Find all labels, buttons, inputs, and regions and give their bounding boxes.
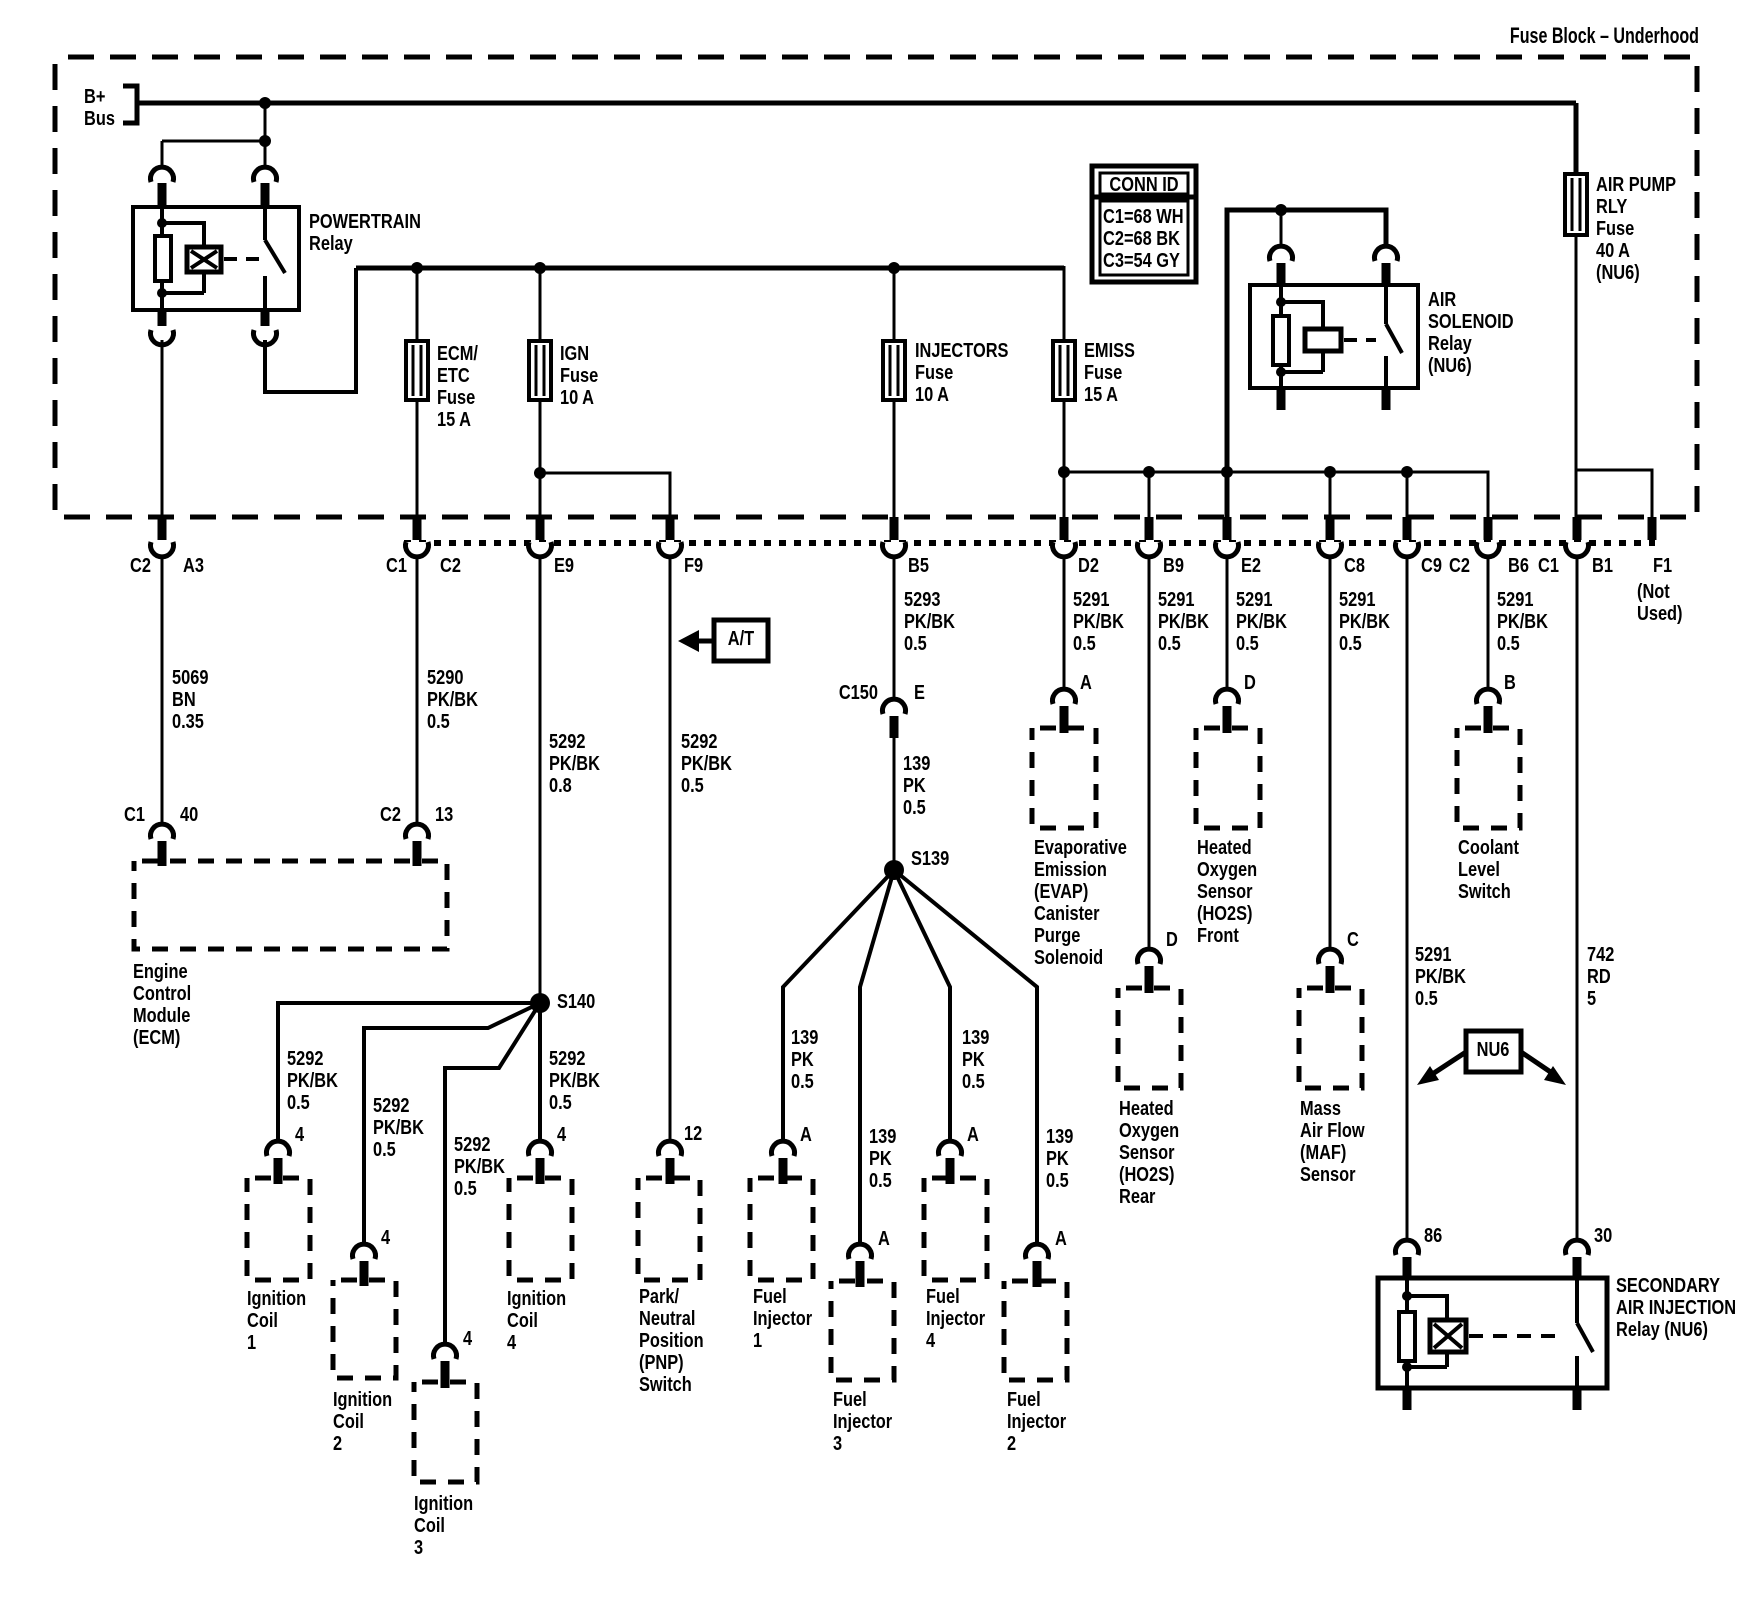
svg-text:1: 1 — [753, 1328, 762, 1351]
svg-text:Module: Module — [133, 1003, 190, 1026]
connector ignition coil 2 pin 4 — [353, 1225, 391, 1286]
connector fuse block exit B9 at x=1149 — [1138, 517, 1184, 576]
svg-text:5291: 5291 — [1073, 587, 1109, 610]
svg-text:5291: 5291 — [1339, 587, 1375, 610]
wire IGN fuse to connectors E9/F9 — [534, 400, 670, 517]
connector MAF sensor pin C — [1319, 927, 1359, 993]
label 5291 PK/BK 0.5 (D2) — [1073, 587, 1125, 654]
wire S140 to ignition coil 4 — [538, 1003, 542, 1142]
svg-text:C1: C1 — [124, 802, 145, 825]
svg-text:(EVAP): (EVAP) — [1034, 879, 1088, 902]
component Ignition Coil 4 dashed box — [509, 1178, 572, 1280]
svg-text:0.5: 0.5 — [1158, 631, 1181, 654]
svg-text:PK/BK: PK/BK — [1497, 609, 1549, 632]
label IGN Fuse 10 A — [560, 341, 598, 408]
svg-text:0.5: 0.5 — [1415, 986, 1438, 1009]
svg-text:C2: C2 — [380, 802, 401, 825]
svg-text:S139: S139 — [911, 846, 949, 869]
svg-text:D: D — [1166, 927, 1178, 950]
connector ignition coil 4 pin 4 — [529, 1122, 567, 1184]
svg-text:2: 2 — [333, 1431, 342, 1454]
svg-text:E9: E9 — [554, 553, 574, 576]
svg-text:C8: C8 — [1344, 553, 1365, 576]
connector secondary air injection relay pin 86 — [1396, 1223, 1443, 1278]
svg-text:4: 4 — [926, 1328, 936, 1351]
svg-text:139: 139 — [791, 1025, 818, 1048]
connector fuse block exit D2 at x=1064 — [1053, 517, 1099, 576]
svg-text:1: 1 — [247, 1330, 256, 1353]
svg-text:S140: S140 — [557, 989, 595, 1012]
svg-text:Heated: Heated — [1197, 835, 1252, 858]
svg-text:Relay: Relay — [1428, 331, 1472, 354]
wire 5292 PK/BK 0.5 (F9 to PNP switch) — [669, 556, 672, 1142]
connector powertrain relay pin 3 (coil ground out) — [151, 310, 174, 345]
junction dot bus / ECM-ETC fuse — [411, 262, 423, 274]
stub F1 (not used) — [1648, 517, 1657, 540]
svg-text:0.5: 0.5 — [681, 773, 704, 796]
svg-text:(ECM): (ECM) — [133, 1025, 180, 1048]
connector coolant level switch pin B — [1477, 670, 1516, 733]
svg-text:Fuel: Fuel — [926, 1284, 960, 1307]
wire S140 to ignition coil 3 — [445, 1003, 540, 1345]
svg-text:(HO2S): (HO2S) — [1197, 901, 1253, 924]
svg-text:CONN ID: CONN ID — [1109, 172, 1178, 195]
label Fuel Injector 3 — [833, 1387, 892, 1454]
svg-text:PK/BK: PK/BK — [454, 1154, 506, 1177]
svg-text:PK/BK: PK/BK — [1236, 609, 1288, 632]
svg-text:5292: 5292 — [454, 1132, 490, 1155]
svg-text:Switch: Switch — [639, 1372, 692, 1395]
wire 5291 PK/BK 0.5 (C8 to MAF sensor) — [1329, 556, 1332, 951]
svg-text:15 A: 15 A — [437, 407, 471, 430]
wire air solenoid relay coil feed drop — [1280, 210, 1283, 248]
svg-text:Front: Front — [1197, 923, 1239, 946]
connector HO2S rear pin D — [1138, 927, 1178, 993]
svg-text:NU6: NU6 — [1477, 1037, 1510, 1060]
label Park/Neutral Position (PNP) Switch — [639, 1284, 704, 1395]
label 5290 PK/BK 0.5 — [427, 665, 479, 732]
svg-text:F1: F1 — [1653, 553, 1672, 576]
svg-text:0.5: 0.5 — [904, 631, 927, 654]
svg-text:(NU6): (NU6) — [1428, 353, 1472, 376]
node B+ Bus — [84, 84, 137, 129]
legend CONN ID table — [1092, 166, 1196, 282]
svg-text:0.5: 0.5 — [1073, 631, 1096, 654]
svg-text:13: 13 — [435, 802, 453, 825]
svg-text:Fuse: Fuse — [1084, 360, 1122, 383]
svg-text:139: 139 — [962, 1025, 989, 1048]
svg-text:PK: PK — [903, 773, 926, 796]
svg-text:PK: PK — [962, 1047, 985, 1070]
svg-text:A3: A3 — [183, 553, 204, 576]
wire S139 to fuel injector 4 — [894, 870, 950, 1142]
svg-text:Evaporative: Evaporative — [1034, 835, 1127, 858]
svg-text:Oxygen: Oxygen — [1119, 1118, 1179, 1141]
wire 5291 PK/BK 0.5 (B6 to coolant level switch) — [1487, 556, 1490, 692]
wire 5291 PK/BK 0.5 (E2 riser and to HO2S front) — [1225, 472, 1230, 692]
svg-text:F9: F9 — [684, 553, 703, 576]
connector ECM C1 pin 40 — [124, 802, 198, 866]
label F1 (Not Used) — [1637, 553, 1683, 624]
connector EVAP solenoid pin A — [1053, 670, 1092, 733]
label Fuel Injector 2 — [1007, 1387, 1066, 1454]
svg-text:C1: C1 — [1538, 553, 1559, 576]
component Park/Neutral Position (PNP) Switch dashed box — [638, 1178, 700, 1280]
label AIR SOLENOID Relay (NU6) — [1428, 287, 1514, 376]
svg-text:0.5: 0.5 — [903, 795, 926, 818]
connector PNP switch pin 12 — [659, 1121, 703, 1184]
svg-text:A/T: A/T — [728, 626, 754, 649]
svg-text:Coil: Coil — [507, 1308, 538, 1331]
wire 5293 PK/BK 0.5 (B5 to C150) — [893, 556, 896, 703]
svg-text:Position: Position — [639, 1328, 704, 1351]
svg-text:Used): Used) — [1637, 601, 1683, 624]
svg-text:Level: Level — [1458, 857, 1500, 880]
connector air solenoid relay pin 1 — [1270, 246, 1293, 284]
svg-text:10 A: 10 A — [560, 385, 594, 408]
label Heated Oxygen Sensor (HO2S) Rear — [1119, 1096, 1179, 1207]
svg-text:AIR PUMP: AIR PUMP — [1596, 172, 1676, 195]
svg-text:C9: C9 — [1421, 553, 1442, 576]
wire ECM/ETC fuse to connector C2 — [416, 400, 419, 517]
svg-text:10 A: 10 A — [915, 382, 949, 405]
svg-text:5: 5 — [1587, 986, 1596, 1009]
label Fuel Injector 1 — [753, 1284, 812, 1351]
svg-text:0.5: 0.5 — [1046, 1168, 1069, 1191]
label 139 PK 0.5 (injector 4) — [962, 1025, 989, 1092]
connector fuse block exit B6/C1 at x=1488 — [1477, 517, 1559, 576]
svg-text:Sensor: Sensor — [1300, 1162, 1356, 1185]
svg-text:PK/BK: PK/BK — [1415, 964, 1467, 987]
wire EMISS fuse to D2 and emission distribution — [1058, 400, 1488, 517]
svg-text:AIR INJECTION: AIR INJECTION — [1616, 1295, 1736, 1318]
svg-text:INJECTORS: INJECTORS — [915, 338, 1008, 361]
label Fuse Block - Underhood — [1510, 25, 1699, 49]
label 5291 PK/BK 0.5 (B6) — [1497, 587, 1549, 654]
svg-text:5292: 5292 — [373, 1093, 409, 1116]
svg-text:A: A — [1055, 1226, 1067, 1249]
connector powertrain relay pin 2 (contact feed) — [254, 167, 277, 209]
svg-text:SOLENOID: SOLENOID — [1428, 309, 1514, 332]
label Ignition Coil 3 — [414, 1491, 473, 1558]
svg-text:PK: PK — [791, 1047, 814, 1070]
svg-text:0.5: 0.5 — [454, 1176, 477, 1199]
connector ignition coil 3 pin 4 — [434, 1326, 473, 1388]
svg-text:Purge: Purge — [1034, 923, 1080, 946]
label AIR PUMP RLY Fuse 40 A (NU6) — [1596, 172, 1676, 283]
svg-text:IGN: IGN — [560, 341, 589, 364]
svg-text:C2: C2 — [130, 553, 151, 576]
svg-text:C: C — [1347, 927, 1359, 950]
svg-text:(HO2S): (HO2S) — [1119, 1162, 1175, 1185]
svg-text:5291: 5291 — [1497, 587, 1533, 610]
svg-text:0.5: 0.5 — [1339, 631, 1362, 654]
label 5292 PK/BK 0.8 — [549, 729, 601, 796]
svg-text:PK/BK: PK/BK — [373, 1115, 425, 1138]
label 5291 PK/BK 0.5 (C9) — [1415, 942, 1467, 1009]
label 139 PK 0.5 (injector 3) — [869, 1124, 896, 1191]
svg-text:40: 40 — [180, 802, 198, 825]
label Ignition Coil 2 — [333, 1387, 392, 1454]
svg-text:Relay (NU6): Relay (NU6) — [1616, 1317, 1708, 1340]
fuse ECM/ETC 15A — [406, 341, 428, 400]
svg-text:(PNP): (PNP) — [639, 1350, 684, 1373]
svg-text:Ignition: Ignition — [247, 1286, 306, 1309]
connector powertrain relay pin 1 (coil feed) — [151, 167, 174, 209]
reference tag A/T with arrow — [678, 620, 768, 661]
svg-text:0.5: 0.5 — [549, 1090, 572, 1113]
label Ignition Coil 4 — [507, 1286, 566, 1353]
svg-text:Air Flow: Air Flow — [1300, 1118, 1365, 1141]
label 139 PK 0.5 (injector 2) — [1046, 1124, 1073, 1191]
svg-text:PK/BK: PK/BK — [1158, 609, 1210, 632]
wire bus drop to IGN fuse — [539, 268, 542, 341]
connector fuse block exit F9 at x=670 — [659, 517, 704, 576]
svg-text:Oxygen: Oxygen — [1197, 857, 1257, 880]
label 139 PK 0.5 (injector 1) — [791, 1025, 818, 1092]
svg-text:Injector: Injector — [833, 1409, 892, 1432]
svg-text:5292: 5292 — [549, 729, 585, 752]
svg-text:5292: 5292 — [681, 729, 717, 752]
svg-text:ECM/: ECM/ — [437, 341, 478, 364]
label 5292 PK/BK 0.5 (F9) — [681, 729, 733, 796]
svg-text:(MAF): (MAF) — [1300, 1140, 1346, 1163]
svg-text:Fuel: Fuel — [753, 1284, 787, 1307]
svg-text:C2=68 BK: C2=68 BK — [1103, 226, 1181, 249]
svg-text:AIR: AIR — [1428, 287, 1456, 310]
label S139 — [911, 846, 949, 869]
svg-text:5291: 5291 — [1236, 587, 1272, 610]
connector ignition coil 1 pin 4 — [267, 1122, 305, 1184]
junction dot bus / IGN fuse — [534, 262, 546, 274]
label Evaporative Emission (EVAP) Canister Purge Solenoid — [1034, 835, 1127, 968]
svg-text:5069: 5069 — [172, 665, 208, 688]
label 5292 PK/BK 0.5 (coil 2) — [373, 1093, 425, 1160]
svg-text:5292: 5292 — [287, 1046, 323, 1069]
svg-text:Ignition: Ignition — [414, 1491, 473, 1514]
wire bus drop to ECM/ETC fuse — [416, 268, 419, 341]
connector fuel injector 3 pin A — [849, 1226, 890, 1287]
connector fuel injector 4 pin A — [939, 1122, 979, 1184]
svg-text:5293: 5293 — [904, 587, 940, 610]
splice S139 — [884, 860, 904, 880]
svg-text:B: B — [1504, 670, 1516, 693]
wire B+ bus to AIR PUMP RLY fuse — [1574, 103, 1579, 174]
connector fuse block exit B1 at x=1577 — [1566, 517, 1613, 576]
svg-text:C150: C150 — [839, 680, 878, 703]
svg-text:Sensor: Sensor — [1197, 879, 1253, 902]
label 5069 BN 0.35 — [172, 665, 208, 732]
relay SECONDARY AIR INJECTION Relay (NU6) — [1378, 1278, 1607, 1388]
wire 5292 PK/BK 0.8 (E9 to S140) — [539, 556, 542, 1003]
wire bus drop to INJECTORS fuse — [893, 268, 896, 341]
junction dot on B+ bus — [259, 97, 271, 109]
svg-text:A: A — [1080, 670, 1092, 693]
connector fuel injector 1 pin A — [771, 1122, 811, 1184]
svg-text:PK: PK — [1046, 1146, 1069, 1169]
component Heated Oxygen Sensor (HO2S) Rear dashed box — [1118, 988, 1181, 1088]
label 139 PK 0.5 (C150-S139) — [903, 751, 930, 818]
component Mass Air Flow (MAF) Sensor dashed box — [1299, 988, 1362, 1088]
svg-text:0.5: 0.5 — [427, 709, 450, 732]
junction dot emission bus / C8 — [1324, 466, 1336, 517]
connector row dotted line — [404, 540, 1655, 546]
junction dot emission bus / C9 — [1401, 466, 1413, 517]
svg-text:0.5: 0.5 — [791, 1069, 814, 1092]
label INJECTORS Fuse 10 A — [915, 338, 1008, 405]
label POWERTRAIN Relay — [309, 209, 421, 254]
label Heated Oxygen Sensor (HO2S) Front — [1197, 835, 1257, 946]
connector HO2S front pin D — [1216, 670, 1256, 733]
wire B+ bus horizontal — [137, 101, 1576, 106]
junction dot air solenoid relay coil feed — [1275, 204, 1287, 216]
svg-text:Fuse: Fuse — [560, 363, 598, 386]
connector fuse block exit E2 at x=1227 — [1216, 517, 1262, 576]
component Ignition Coil 1 dashed box — [247, 1178, 310, 1280]
component EVAP Canister Purge Solenoid dashed box — [1032, 728, 1096, 828]
label 5292 PK/BK 0.5 (coil 3) — [454, 1132, 506, 1199]
svg-text:POWERTRAIN: POWERTRAIN — [309, 209, 421, 232]
svg-text:Injector: Injector — [926, 1306, 985, 1329]
svg-text:742: 742 — [1587, 942, 1614, 965]
junction dot emission bus / B9 — [1143, 466, 1155, 517]
svg-text:Coil: Coil — [333, 1409, 364, 1432]
svg-text:4: 4 — [381, 1225, 391, 1248]
svg-text:Fuse: Fuse — [437, 385, 475, 408]
svg-text:139: 139 — [903, 751, 930, 774]
wire 5291 PK/BK 0.5 (C9 to secondary air injection relay 86) — [1406, 556, 1409, 1243]
wire B+ bus drop to powertrain relay — [162, 103, 271, 170]
svg-text:B5: B5 — [908, 553, 929, 576]
svg-text:5292: 5292 — [549, 1046, 585, 1069]
label 5291 PK/BK 0.5 (C8) — [1339, 587, 1391, 654]
wire INJECTORS fuse to connector B5 — [893, 400, 896, 517]
label 5291 PK/BK 0.5 (B9) — [1158, 587, 1210, 654]
svg-text:0.5: 0.5 — [373, 1137, 396, 1160]
fuse IGN 10A — [529, 341, 551, 400]
module Engine Control Module (ECM) dashed box — [134, 861, 447, 949]
secondary air injection relay bottom pin stubs — [1407, 1388, 1577, 1410]
wire S139 to fuel injector 1 — [783, 870, 894, 1142]
wire 5291 PK/BK 0.5 (B9 to HO2S rear) — [1148, 556, 1151, 951]
svg-text:0.5: 0.5 — [962, 1069, 985, 1092]
svg-text:Coil: Coil — [414, 1513, 445, 1536]
svg-text:Fuel: Fuel — [1007, 1387, 1041, 1410]
label EMISS Fuse 15 A — [1084, 338, 1135, 405]
label 5292 PK/BK 0.5 (coil 4) — [549, 1046, 601, 1113]
svg-text:0.5: 0.5 — [287, 1090, 310, 1113]
svg-text:Park/: Park/ — [639, 1284, 679, 1307]
svg-text:D: D — [1244, 670, 1256, 693]
component Fuel Injector 2 dashed box — [1004, 1281, 1067, 1380]
wire S140 to ignition coil 2 — [364, 1003, 540, 1245]
svg-text:B1: B1 — [1592, 553, 1613, 576]
svg-text:5290: 5290 — [427, 665, 463, 688]
svg-text:Relay: Relay — [309, 231, 353, 254]
svg-text:4: 4 — [463, 1326, 473, 1349]
svg-text:Neutral: Neutral — [639, 1306, 695, 1329]
svg-text:E2: E2 — [1241, 553, 1261, 576]
svg-text:C2: C2 — [440, 553, 461, 576]
fuse AIR PUMP RLY 40A — [1565, 174, 1587, 235]
connector powertrain relay pin 4 (switched output) — [254, 310, 277, 345]
connector fuel injector 2 pin A — [1026, 1226, 1067, 1287]
svg-text:0.35: 0.35 — [172, 709, 204, 732]
svg-text:PK/BK: PK/BK — [549, 1068, 601, 1091]
svg-text:Heated: Heated — [1119, 1096, 1174, 1119]
wire S139 to fuel injector 2 — [894, 870, 1037, 1245]
label Engine Control Module (ECM) — [133, 959, 191, 1048]
label Coolant Level Switch — [1458, 835, 1519, 902]
connector fuse block exit E9 at x=540 — [529, 517, 575, 576]
air solenoid relay bottom pin stubs — [1281, 388, 1386, 410]
svg-text:Canister: Canister — [1034, 901, 1100, 924]
wire fuse feed bus — [356, 266, 1064, 341]
junction dot emission bus / E2 riser — [1221, 466, 1233, 478]
fuse INJECTORS 10A — [883, 341, 905, 400]
relay POWERTRAIN Relay — [133, 207, 299, 310]
svg-text:(Not: (Not — [1637, 579, 1670, 602]
wire 742 RD 5 (B1 to secondary air injection relay 30) — [1576, 556, 1579, 1243]
wire powertrain relay coil ground to connector A3 — [161, 340, 164, 517]
svg-text:Solenoid: Solenoid — [1034, 945, 1103, 968]
svg-text:PK: PK — [869, 1146, 892, 1169]
svg-text:Injector: Injector — [753, 1306, 812, 1329]
component Fuel Injector 4 dashed box — [924, 1178, 987, 1280]
svg-text:BN: BN — [172, 687, 196, 710]
wire S139 to fuel injector 3 — [860, 870, 894, 1245]
reference tag NU6 with arrows — [1417, 1031, 1566, 1085]
label 5291 PK/BK 0.5 (E2) — [1236, 587, 1288, 654]
svg-text:A: A — [878, 1226, 890, 1249]
svg-text:0.5: 0.5 — [1497, 631, 1520, 654]
connector ECM C2 pin 13 — [380, 802, 453, 866]
svg-text:ETC: ETC — [437, 363, 470, 386]
svg-text:Switch: Switch — [1458, 879, 1511, 902]
wire S140 to ignition coil 1 — [278, 1003, 540, 1142]
wire AIR PUMP fuse to B1 and F1 — [1576, 235, 1652, 517]
svg-text:Coolant: Coolant — [1458, 835, 1519, 858]
svg-text:PK/BK: PK/BK — [904, 609, 956, 632]
label ECM/ETC Fuse 15 A — [437, 341, 478, 430]
fuse EMISS 15A — [1053, 341, 1075, 400]
component Fuel Injector 3 dashed box — [831, 1281, 894, 1380]
wire powertrain relay switched output to fuse bus — [265, 268, 356, 392]
wire air solenoid relay feed (top) — [1227, 210, 1386, 472]
svg-text:(NU6): (NU6) — [1596, 260, 1640, 283]
svg-text:B9: B9 — [1163, 553, 1184, 576]
svg-text:Bus: Bus — [84, 106, 115, 129]
component Ignition Coil 3 dashed box — [414, 1382, 477, 1482]
svg-text:RLY: RLY — [1596, 194, 1627, 217]
svg-text:3: 3 — [414, 1535, 423, 1558]
label 5293 PK/BK 0.5 — [904, 587, 956, 654]
svg-text:SECONDARY: SECONDARY — [1616, 1273, 1720, 1296]
svg-text:EMISS: EMISS — [1084, 338, 1135, 361]
connector fuse block exit C2/A3 at x=162 — [130, 517, 204, 576]
svg-text:PK/BK: PK/BK — [681, 751, 733, 774]
svg-text:4: 4 — [507, 1330, 517, 1353]
label S140 — [557, 989, 595, 1012]
svg-text:3: 3 — [833, 1431, 842, 1454]
svg-text:Fuse: Fuse — [915, 360, 953, 383]
svg-text:15 A: 15 A — [1084, 382, 1118, 405]
connector air solenoid relay pin 2 — [1375, 246, 1398, 284]
svg-text:139: 139 — [869, 1124, 896, 1147]
svg-text:4: 4 — [557, 1122, 567, 1145]
connector C150 pin E — [839, 680, 925, 738]
svg-text:2: 2 — [1007, 1431, 1016, 1454]
